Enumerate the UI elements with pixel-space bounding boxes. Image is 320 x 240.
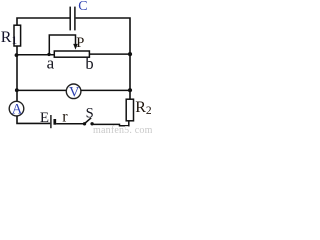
battery plate short [53, 119, 56, 125]
switch S contact left [83, 122, 86, 125]
resistor R1 [14, 25, 21, 46]
wire: mid row right, rheostat b end to right wire [89, 53, 130, 55]
svg-text:b: b [85, 54, 93, 73]
resistor R2 [126, 99, 133, 121]
wire: voltmeter row right segment [81, 89, 130, 91]
voltmeter V [66, 84, 81, 99]
node: right junction mid row [128, 52, 132, 56]
svg-text:R2: R2 [135, 99, 152, 117]
svg-text:manfen5. com: manfen5. com [93, 125, 152, 133]
node: left junction to rheostat wire [15, 53, 19, 57]
node: rheostat left junction [47, 53, 50, 56]
node: left junction voltmeter row [15, 88, 19, 92]
battery plate long (E) [50, 115, 52, 128]
wire: wiper link from a-end junction up and over [49, 35, 75, 54]
wire: battery to switch [56, 123, 83, 125]
wire: switch to R2 bottom lead [93, 121, 129, 126]
svg-text:S: S [86, 105, 94, 121]
switch S contact right [90, 122, 93, 125]
svg-text:a: a [47, 53, 55, 72]
wire top-right: capacitor right plate to top-right corner down right side [76, 18, 130, 99]
wire left vertical: R1 bottom to ammeter top [16, 46, 18, 102]
svg-text:V: V [69, 84, 80, 100]
svg-text:C: C [78, 0, 87, 14]
wiper arrow of rheostat P [73, 44, 78, 50]
svg-text:E: E [40, 110, 49, 126]
wire: left bottom corner [17, 116, 50, 124]
capacitor C [70, 7, 75, 31]
rheostat P body [54, 51, 89, 57]
wire: mid row left, junction to rheostat a end [17, 54, 55, 56]
node: right junction voltmeter row [128, 88, 132, 92]
wire: voltmeter row left segment [17, 89, 67, 91]
svg-text:A: A [12, 102, 23, 118]
wire top-left: corner to capacitor left plate [17, 18, 70, 25]
ammeter A [9, 101, 24, 116]
svg-text:P: P [76, 35, 84, 51]
switch S lever [85, 118, 92, 124]
